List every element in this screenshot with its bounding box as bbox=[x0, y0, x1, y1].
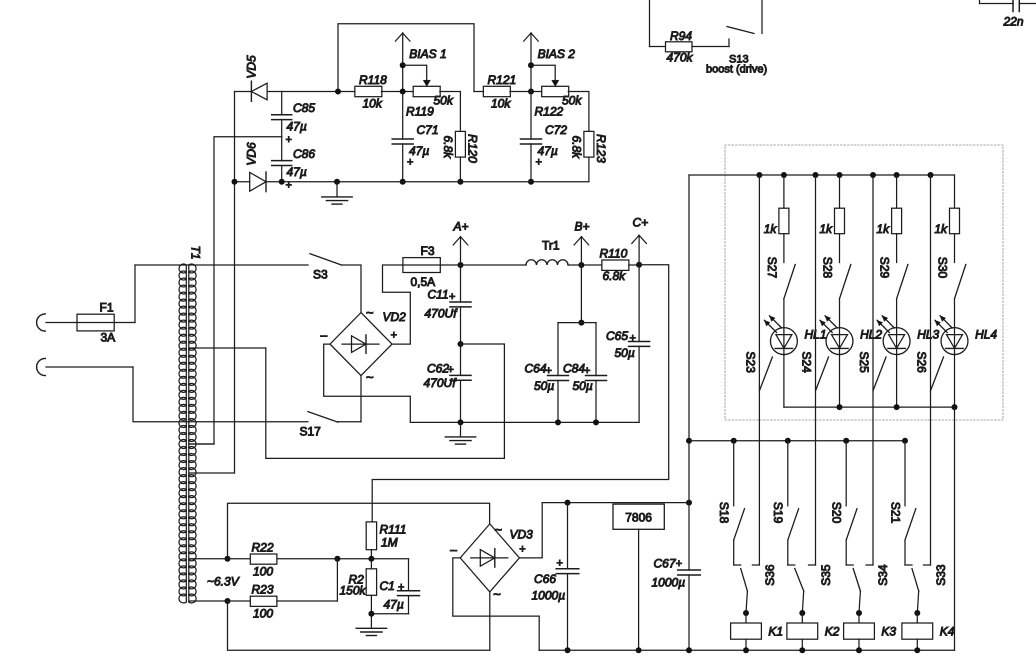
svg-text:F3: F3 bbox=[421, 244, 435, 258]
svg-text:+: + bbox=[546, 365, 552, 377]
svg-text:7806: 7806 bbox=[625, 511, 652, 525]
svg-text:R110: R110 bbox=[600, 247, 628, 261]
svg-text:R22: R22 bbox=[252, 541, 274, 555]
svg-text:VD2: VD2 bbox=[383, 310, 407, 324]
svg-text:BIAS 2: BIAS 2 bbox=[538, 47, 576, 61]
svg-text:+: + bbox=[407, 157, 413, 169]
svg-text:+: + bbox=[398, 582, 404, 594]
svg-text:+: + bbox=[391, 330, 397, 342]
svg-text:C64: C64 bbox=[525, 362, 547, 376]
svg-text:+: + bbox=[536, 157, 542, 169]
svg-text:K1: K1 bbox=[768, 625, 783, 639]
svg-text:S18: S18 bbox=[717, 502, 731, 524]
svg-text:10k: 10k bbox=[363, 97, 383, 111]
svg-text:C62: C62 bbox=[427, 362, 449, 376]
svg-text:470Uf: 470Uf bbox=[424, 376, 458, 390]
svg-text:R23: R23 bbox=[252, 583, 274, 597]
svg-text:1k: 1k bbox=[819, 222, 833, 236]
svg-text:~: ~ bbox=[366, 370, 374, 385]
svg-text:47µ: 47µ bbox=[287, 120, 307, 134]
svg-text:~: ~ bbox=[493, 587, 501, 602]
svg-text:R94: R94 bbox=[670, 29, 692, 43]
svg-text:S24: S24 bbox=[800, 352, 814, 374]
svg-text:–: – bbox=[450, 543, 457, 557]
svg-text:S19: S19 bbox=[771, 502, 785, 524]
svg-text:–: – bbox=[321, 328, 328, 342]
svg-text:S25: S25 bbox=[857, 352, 871, 374]
svg-text:+: + bbox=[286, 134, 292, 146]
svg-text:150k: 150k bbox=[340, 584, 367, 598]
svg-text:VD3: VD3 bbox=[510, 528, 534, 542]
svg-text:+: + bbox=[584, 365, 590, 377]
svg-text:50k: 50k bbox=[562, 94, 582, 108]
svg-text:1000µ: 1000µ bbox=[532, 589, 566, 603]
svg-text:R120: R120 bbox=[465, 134, 479, 163]
svg-text:T1: T1 bbox=[188, 245, 202, 259]
svg-text:+: + bbox=[519, 544, 525, 556]
svg-text:3A: 3A bbox=[101, 331, 116, 345]
svg-text:50µ: 50µ bbox=[573, 379, 593, 393]
svg-text:K4: K4 bbox=[940, 625, 955, 639]
svg-text:C86: C86 bbox=[293, 147, 315, 161]
svg-text:1k: 1k bbox=[764, 222, 778, 236]
svg-text:S26: S26 bbox=[915, 352, 929, 374]
svg-text:C66: C66 bbox=[534, 572, 556, 586]
svg-text:S23: S23 bbox=[744, 352, 758, 374]
svg-text:Tr1: Tr1 bbox=[542, 239, 560, 253]
svg-text:C84: C84 bbox=[563, 362, 585, 376]
svg-text:R111: R111 bbox=[380, 523, 407, 537]
svg-text:S30: S30 bbox=[936, 257, 950, 279]
svg-text:50µ: 50µ bbox=[534, 379, 554, 393]
svg-text:C+: C+ bbox=[633, 216, 649, 230]
svg-text:S27: S27 bbox=[765, 257, 779, 279]
svg-text:R119: R119 bbox=[406, 105, 434, 119]
svg-text:boost (drive): boost (drive) bbox=[706, 64, 767, 76]
svg-text:22n: 22n bbox=[1003, 15, 1024, 29]
svg-text:VD5: VD5 bbox=[245, 55, 259, 79]
svg-text:S20: S20 bbox=[830, 502, 844, 524]
svg-text:R122: R122 bbox=[535, 105, 564, 119]
svg-text:47µ: 47µ bbox=[384, 598, 404, 612]
svg-text:HL3: HL3 bbox=[917, 328, 939, 342]
svg-text:1k: 1k bbox=[934, 222, 948, 236]
svg-text:C11: C11 bbox=[428, 288, 449, 302]
svg-text:HL2: HL2 bbox=[860, 328, 882, 342]
svg-text:470k: 470k bbox=[667, 51, 694, 65]
svg-text:C71: C71 bbox=[417, 123, 439, 137]
svg-text:C72: C72 bbox=[545, 123, 567, 137]
svg-text:50µ: 50µ bbox=[615, 346, 635, 360]
svg-text:+: + bbox=[557, 558, 563, 570]
svg-text:~: ~ bbox=[366, 305, 374, 320]
svg-text:C1: C1 bbox=[380, 579, 395, 593]
svg-text:100: 100 bbox=[253, 565, 273, 579]
svg-text:HL4: HL4 bbox=[975, 328, 997, 342]
svg-text:B+: B+ bbox=[575, 220, 590, 234]
svg-text:50k: 50k bbox=[434, 94, 454, 108]
svg-text:S3: S3 bbox=[313, 268, 328, 282]
svg-text:6.8k: 6.8k bbox=[570, 135, 584, 159]
svg-text:~6.3V: ~6.3V bbox=[207, 575, 240, 589]
svg-text:6.8k: 6.8k bbox=[603, 269, 627, 283]
svg-text:1M: 1M bbox=[381, 536, 398, 550]
svg-text:6.8k: 6.8k bbox=[441, 135, 455, 159]
svg-text:470Uf: 470Uf bbox=[425, 307, 459, 321]
svg-text:C65: C65 bbox=[606, 329, 628, 343]
svg-text:1000µ: 1000µ bbox=[652, 576, 686, 590]
svg-text:A+: A+ bbox=[453, 220, 469, 234]
svg-text:100: 100 bbox=[253, 607, 273, 621]
svg-text:C67: C67 bbox=[654, 557, 677, 571]
svg-text:47µ: 47µ bbox=[287, 165, 307, 179]
svg-text:S34: S34 bbox=[876, 564, 890, 586]
svg-text:S29: S29 bbox=[878, 257, 892, 279]
svg-text:S35: S35 bbox=[819, 564, 833, 586]
svg-text:S36: S36 bbox=[763, 564, 777, 586]
svg-text:+: + bbox=[630, 333, 636, 345]
svg-text:+: + bbox=[676, 558, 682, 570]
svg-text:1k: 1k bbox=[876, 222, 890, 236]
svg-text:+: + bbox=[448, 364, 454, 376]
svg-text:S33: S33 bbox=[934, 564, 948, 586]
svg-text:S21: S21 bbox=[888, 502, 902, 524]
svg-text:S28: S28 bbox=[821, 257, 835, 279]
svg-text:S17: S17 bbox=[300, 425, 322, 439]
svg-text:R123: R123 bbox=[594, 134, 608, 163]
svg-text:F1: F1 bbox=[100, 301, 114, 315]
svg-text:C85: C85 bbox=[293, 101, 315, 115]
svg-text:BIAS 1: BIAS 1 bbox=[409, 47, 446, 61]
svg-text:K2: K2 bbox=[825, 625, 840, 639]
svg-text:R118: R118 bbox=[359, 73, 387, 87]
svg-text:10k: 10k bbox=[491, 97, 511, 111]
svg-text:~: ~ bbox=[495, 522, 503, 537]
svg-text:R121: R121 bbox=[488, 73, 517, 87]
svg-text:+: + bbox=[449, 291, 455, 303]
svg-text:VD6: VD6 bbox=[245, 142, 259, 166]
svg-text:K3: K3 bbox=[881, 625, 896, 639]
